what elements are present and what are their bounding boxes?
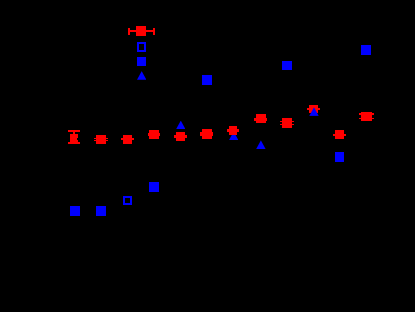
red point R5 <box>174 135 187 137</box>
legend entry 4: blue triangle <box>137 71 146 80</box>
red point R4 <box>148 133 160 135</box>
blue triangle T3 <box>256 140 265 149</box>
red point R10 <box>307 108 320 110</box>
blue triangle T2 (behind red R7) <box>229 132 238 141</box>
red point R8 <box>254 118 268 121</box>
blue filled square B3 <box>361 45 371 55</box>
blue filled square B7 <box>96 206 106 216</box>
blue filled square B4 <box>149 182 159 192</box>
legend entry 3: filled blue square <box>137 57 146 66</box>
blue filled square B1 <box>202 75 212 85</box>
red point R1 with y error bar <box>68 130 80 132</box>
legend entry 2: open blue square <box>137 42 146 51</box>
blue triangle T1 <box>176 121 185 130</box>
red point R6 <box>200 132 213 137</box>
legend entry 1: red square with x error bar <box>129 30 156 32</box>
red point R12 (double) <box>359 113 374 115</box>
red point R7 (over triangle T2) <box>227 129 240 132</box>
blue triangle T4 (over red R10) <box>309 107 318 116</box>
blue filled square B5 <box>335 152 344 162</box>
red point R9 (double) <box>280 121 294 122</box>
blue filled square B6 <box>70 206 80 216</box>
red point R2 (double, x error dashes) <box>94 138 108 139</box>
blue open square O1 <box>123 196 132 205</box>
blue filled square B2 <box>282 61 292 71</box>
red point R3 <box>121 138 134 140</box>
red point R11 <box>333 134 346 136</box>
